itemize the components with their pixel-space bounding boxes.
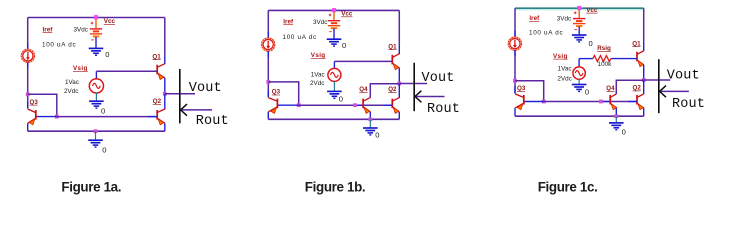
svg-text:Vsig: Vsig: [73, 65, 88, 72]
svg-text:1Vac: 1Vac: [558, 66, 572, 73]
label 3Vdc: [557, 16, 571, 23]
ground bottom: [609, 123, 624, 130]
node output: [642, 78, 646, 82]
wire Q1 emitter to output node: [398, 68, 400, 84]
svg-text:Q3: Q3: [517, 85, 526, 92]
svg-text:0: 0: [339, 94, 343, 103]
node diode tap on left rail: [266, 80, 270, 84]
Vout marker line: [179, 69, 181, 124]
svg-text:Figure 1b.: Figure 1b.: [305, 179, 366, 194]
label Q2: [388, 86, 397, 93]
label 0 bottom ground: [622, 128, 626, 137]
wire left rail upper: [27, 18, 29, 50]
svg-text:Vcc: Vcc: [341, 11, 353, 18]
svg-text:3Vdc: 3Vdc: [557, 16, 571, 23]
label 100 uA dc: [42, 41, 76, 48]
label Rout: [427, 102, 460, 117]
svg-text:Iref: Iref: [283, 18, 294, 25]
wire bottom rail: [268, 118, 399, 120]
sine source Vsig: [328, 68, 341, 81]
wire Vsig to Q1 base: [96, 71, 157, 79]
node base junction: [55, 115, 59, 119]
Rout arrow: [660, 86, 689, 98]
wire to bottom ground: [95, 131, 97, 140]
node base junction: [297, 103, 301, 107]
node ground tap: [614, 114, 618, 118]
label 3Vdc: [74, 27, 88, 34]
label Q4: [359, 86, 368, 93]
svg-text:Rsig: Rsig: [597, 45, 611, 52]
svg-text:100 uA dc: 100 uA dc: [529, 30, 563, 37]
svg-text:Figure 1c.: Figure 1c.: [538, 179, 598, 194]
wire Rsig to Q1 base: [611, 58, 637, 60]
svg-text:100 uA dc: 100 uA dc: [42, 41, 76, 48]
svg-text:Rout: Rout: [672, 97, 705, 112]
wire Vsig to ground: [95, 92, 97, 100]
label Q4: [606, 85, 615, 92]
wire to bottom ground: [615, 116, 617, 122]
label 1Vac: [558, 66, 572, 73]
node diode tap on left rail: [513, 79, 517, 83]
svg-text:Rout: Rout: [427, 102, 460, 117]
svg-text:Iref: Iref: [529, 15, 540, 22]
node Vcc: [577, 6, 581, 10]
label Vout: [422, 71, 455, 86]
Rout arrow: [415, 91, 445, 103]
label Q2: [153, 98, 162, 105]
ground below Vsig: [89, 101, 104, 108]
wire Q2 collector to output node: [164, 94, 166, 110]
label 100 uA dc: [283, 34, 317, 41]
label Vsig: [73, 65, 88, 72]
label 3Vdc: [313, 19, 327, 26]
svg-text:3Vdc: 3Vdc: [313, 19, 327, 26]
voltage source V2 3Vdc battery: [328, 12, 340, 32]
svg-text:0: 0: [101, 106, 105, 115]
svg-text:Vout: Vout: [422, 71, 455, 86]
transistor Q1: [637, 51, 644, 67]
label 0 bottom ground: [375, 131, 379, 140]
ground bottom: [88, 140, 103, 147]
Vout marker line: [658, 59, 660, 113]
label Q1: [152, 53, 161, 60]
wire left rail lower: [267, 51, 269, 97]
wire Vsig to ground: [578, 79, 580, 84]
wire right rail: [398, 10, 400, 54]
wire bottom rail: [515, 115, 644, 117]
label 1Vac: [311, 72, 325, 79]
ground below battery: [572, 35, 587, 42]
transistor Q3: [28, 109, 36, 125]
ground below Vsig: [327, 91, 342, 98]
wire left rail upper: [267, 10, 269, 38]
wire Q2 emitter to bottom rail: [398, 112, 400, 120]
node Q4 base pin junction: [353, 103, 357, 107]
label 0 Vsig ground: [339, 94, 343, 103]
ground below battery: [327, 39, 342, 46]
wire battery to ground: [95, 37, 97, 48]
label Q3: [517, 85, 526, 92]
svg-text:Vout: Vout: [667, 69, 700, 84]
wire Q3 emitter to bottom rail: [27, 123, 29, 131]
svg-text:Q1: Q1: [388, 43, 397, 50]
svg-text:100 uA dc: 100 uA dc: [283, 34, 317, 41]
transistor Q4: [363, 98, 370, 114]
sine source Vsig: [573, 67, 585, 79]
transistor Q2: [157, 109, 165, 125]
svg-text:2Vdc: 2Vdc: [557, 76, 571, 83]
wire left rail lower: [514, 50, 516, 93]
ground bottom: [363, 128, 378, 135]
svg-text:Figure 1a.: Figure 1a.: [61, 179, 121, 194]
wire Q4 collector to output node: [616, 80, 643, 94]
node diode tap on left rail: [26, 92, 30, 96]
wire base rail Q3 to Q2: [277, 104, 392, 106]
transistor Q2: [637, 94, 644, 110]
sine source Vsig: [89, 79, 103, 93]
label Q1: [388, 43, 397, 50]
label 100k: [598, 61, 613, 68]
wire bottom rail: [28, 130, 165, 132]
transistor Q3: [515, 94, 524, 110]
wire Q3 emitter to bottom rail: [267, 112, 269, 120]
svg-text:Q1: Q1: [632, 40, 641, 47]
svg-text:2Vdc: 2Vdc: [64, 88, 78, 95]
svg-text:Q2: Q2: [388, 86, 397, 93]
svg-text:0: 0: [105, 50, 109, 59]
wire base rail Q3 to Q2: [524, 101, 637, 103]
label 0 Vsig ground: [585, 87, 589, 96]
label 0 Vsig ground: [101, 106, 105, 115]
svg-text:0: 0: [375, 131, 379, 140]
label 2Vdc: [64, 88, 78, 95]
wire left rail lower: [27, 62, 29, 108]
label Q3: [30, 99, 39, 106]
wire Q1 emitter to output node: [164, 78, 166, 94]
label Vsig: [311, 52, 326, 59]
label Iref: [43, 26, 54, 33]
label Iref: [529, 15, 540, 22]
caption Figure 1b: [305, 179, 366, 194]
Vout marker line: [413, 63, 415, 111]
svg-text:Q4: Q4: [606, 85, 615, 92]
wire base rail Q3 to Q2: [36, 116, 157, 118]
node Vcc: [94, 15, 98, 19]
wire Q4 emitter to bottom rail: [369, 112, 371, 120]
svg-text:0: 0: [589, 39, 593, 48]
svg-text:Q3: Q3: [30, 99, 39, 106]
svg-text:Iref: Iref: [43, 26, 54, 33]
wire diode connection of Q3: [515, 81, 544, 102]
svg-text:Q3: Q3: [272, 89, 281, 96]
caption Figure 1c: [538, 179, 598, 194]
transistor Q4: [610, 94, 617, 110]
svg-text:1Vac: 1Vac: [311, 72, 325, 79]
wire diode connection of Q3: [28, 94, 57, 116]
wire output to Vout probe: [399, 83, 427, 85]
wire Q3 emitter to bottom rail: [514, 108, 516, 116]
wire Q4 emitter to bottom rail: [615, 108, 617, 116]
wire Vsig to Q1 base: [334, 61, 392, 68]
svg-text:Q2: Q2: [153, 98, 162, 105]
label Vout: [189, 81, 222, 96]
svg-text:Vout: Vout: [189, 81, 222, 96]
wire Q1 emitter to output node: [643, 65, 645, 80]
wire Q2 collector to output node: [643, 80, 645, 94]
node output: [163, 92, 167, 96]
svg-text:3Vdc: 3Vdc: [74, 27, 88, 34]
label Q2: [633, 85, 642, 92]
label Iref: [283, 18, 294, 25]
svg-text:Vcc: Vcc: [586, 7, 598, 14]
label Vcc: [341, 11, 353, 18]
label Vcc: [586, 7, 598, 14]
wire Q2 emitter to bottom rail: [643, 108, 645, 116]
svg-text:Rout: Rout: [196, 114, 229, 129]
ground below Vsig: [572, 85, 587, 92]
resistor Rsig 100k: [593, 56, 611, 62]
voltage source V1 3Vdc battery: [90, 19, 102, 40]
wire top rail: [28, 17, 165, 19]
transistor Q3: [268, 98, 277, 114]
svg-text:Vcc: Vcc: [104, 18, 116, 25]
svg-text:2Vdc: 2Vdc: [310, 80, 324, 87]
node Q4 base pin junction: [599, 100, 603, 104]
current source Iref: [262, 38, 275, 51]
svg-text:100k: 100k: [598, 61, 613, 68]
voltage source V3 3Vdc battery: [573, 10, 585, 30]
label 100 uA dc: [529, 30, 563, 37]
wire Q2 collector to output node: [398, 84, 400, 99]
label Vout: [667, 69, 700, 84]
wire output to Vout probe: [165, 93, 195, 95]
transistor Q2: [392, 98, 399, 114]
node Vcc: [332, 8, 336, 12]
transistor Q1: [392, 54, 399, 70]
svg-text:0: 0: [622, 128, 626, 137]
svg-text:0: 0: [585, 87, 589, 96]
node ground tap: [368, 117, 372, 121]
wire Q4 collector to output node: [370, 84, 399, 98]
label Q1: [632, 40, 641, 47]
wire Q2 emitter to bottom rail: [164, 123, 166, 131]
svg-text:Vsig: Vsig: [311, 52, 326, 59]
label Vsig: [553, 53, 568, 60]
svg-text:1Vac: 1Vac: [65, 79, 79, 86]
wire top rail: [515, 8, 644, 9]
wire battery to ground: [578, 26, 580, 34]
wire left rail upper: [514, 8, 516, 37]
label 2Vdc: [557, 76, 571, 83]
svg-text:Vsig: Vsig: [553, 53, 568, 60]
label Rsig: [597, 45, 611, 52]
ground below battery: [89, 48, 104, 55]
svg-text:Q1: Q1: [152, 53, 161, 60]
svg-text:0: 0: [102, 145, 106, 154]
label Rout: [672, 97, 705, 112]
transistor Q1: [157, 64, 165, 80]
Rout arrow: [181, 104, 212, 116]
label Vcc: [104, 18, 116, 25]
wire top rail: [268, 9, 399, 11]
wire right rail: [164, 18, 166, 65]
current source Iref: [21, 49, 34, 62]
node base junction: [542, 100, 546, 104]
svg-text:Q4: Q4: [359, 86, 368, 93]
label Q3: [272, 89, 281, 96]
node output: [397, 82, 401, 86]
wire battery to ground: [333, 28, 335, 38]
label Rout: [196, 114, 229, 129]
label 0 battery ground: [589, 39, 593, 48]
wire to bottom ground: [369, 119, 371, 127]
node ground tap: [94, 129, 98, 133]
current source Iref: [508, 37, 521, 50]
svg-text:0: 0: [342, 41, 346, 50]
caption Figure 1a: [61, 179, 121, 194]
svg-text:Q2: Q2: [633, 85, 642, 92]
label 0 battery ground: [105, 50, 109, 59]
wire Vsig to ground: [333, 81, 335, 91]
wire right rail: [643, 8, 645, 51]
label 2Vdc: [310, 80, 324, 87]
label 0 battery ground: [342, 41, 346, 50]
wire output to Vout probe: [644, 79, 671, 81]
wire Vsig to Rsig: [579, 59, 593, 67]
wire diode connection of Q3: [268, 82, 298, 105]
label 0 bottom ground: [102, 145, 106, 154]
label 1Vac: [65, 79, 79, 86]
